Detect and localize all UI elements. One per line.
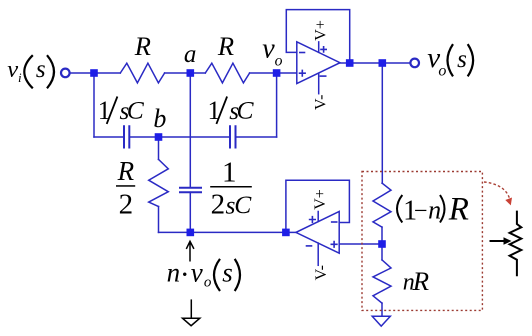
svg-text:s: s: [222, 258, 233, 288]
annotation arrow up to bottom node: [186, 241, 194, 261]
svg-text:s: s: [457, 46, 467, 73]
svg-text:R: R: [412, 266, 429, 296]
red dashed box around divider: [362, 172, 482, 311]
svg-text:V+: V+: [312, 189, 329, 210]
svg-text:s: s: [36, 56, 46, 83]
resistor R (right, horizontal): [205, 63, 249, 83]
op-amp U2 non-inverting input mark: [331, 242, 337, 248]
svg-text:−: −: [414, 198, 428, 225]
svg-text:n: n: [167, 258, 181, 288]
svg-text:C: C: [234, 190, 252, 219]
svg-text:C: C: [127, 96, 145, 125]
wire node a down to capacitor 1/2sC (crosses cap row): [189, 73, 191, 188]
svg-text:2: 2: [211, 189, 226, 221]
op-amp U1 V+ rail mark: [321, 47, 326, 52]
op-amp U2 V+ rail mark: [310, 217, 316, 223]
node square: node b: [155, 133, 163, 141]
svg-text:V-: V-: [313, 265, 330, 280]
svg-text:o: o: [275, 52, 283, 69]
op-amp U1 feedback wire: [286, 10, 349, 63]
node square: U1 output: [346, 59, 354, 67]
op-amp U1 V+ pin: [318, 42, 320, 52]
wire tap node to op-amp U2 + input: [339, 243, 382, 245]
svg-text:R: R: [117, 156, 135, 186]
node square: node a: [187, 69, 195, 77]
op-amp U2 feedback wire: [286, 180, 350, 232]
svg-text:V+: V+: [313, 20, 330, 41]
svg-text:i: i: [18, 70, 22, 85]
wire output junction down to divider: [381, 63, 383, 183]
bottom wire to op-amp U2 output: [159, 231, 286, 233]
red dashed arrow to potentiometer: [484, 182, 510, 200]
node square: output junction: [379, 59, 387, 67]
op-amp U1 inverting input mark: [300, 52, 305, 54]
capacitor 1/2sC plates: [180, 188, 201, 193]
svg-text:C: C: [237, 96, 255, 125]
wire capacitor row left segment: [94, 136, 124, 138]
svg-text:1: 1: [222, 157, 237, 189]
potentiometer body (black): [510, 211, 522, 277]
op-amp U2 triangle: [296, 212, 339, 254]
resistor R/2 (vertical): [149, 159, 169, 206]
op-amp U1 triangle: [297, 42, 340, 84]
svg-text:o: o: [438, 62, 446, 79]
wire tap node to resistor nR: [381, 244, 383, 260]
wire capacitor row up to vo node: [276, 73, 278, 137]
resistor (1-n)R (vertical): [373, 183, 391, 227]
op-amp U1 output wire to terminal: [340, 62, 410, 64]
svg-text:V-: V-: [313, 95, 330, 110]
red arrowhead: [505, 198, 512, 206]
op-amp U2 V- pin: [317, 243, 319, 265]
ground symbol (black, reference for n·vo): [190, 299, 192, 318]
capacitor 1/sC (left) plates: [124, 126, 129, 147]
op-amp U2 V+ pin: [317, 212, 319, 222]
op-amp U1 non-inverting input mark: [300, 70, 306, 76]
svg-text:n: n: [428, 196, 441, 225]
label (1-n)R: [397, 195, 402, 223]
wire capacitor row middle segment: [129, 136, 230, 138]
node square: divider tap: [378, 240, 386, 248]
wire capacitor row right segment: [236, 136, 277, 138]
node square: vo node: [273, 69, 281, 77]
wire (1-n)R to tap node: [381, 227, 383, 244]
wire R/2 down to bottom wire: [158, 207, 160, 233]
capacitor 1/sC (right) plates: [230, 126, 236, 147]
wire R to op-amp U1 + input: [250, 72, 297, 74]
op-amp U1 V- pin: [318, 73, 320, 94]
svg-text:R: R: [448, 191, 469, 227]
wire node b down to resistor R/2: [158, 137, 160, 159]
svg-text:b: b: [153, 104, 166, 133]
svg-text:2: 2: [119, 188, 134, 220]
wire nR to ground: [381, 303, 383, 316]
wire capacitor 1/2sC down to bottom node: [189, 192, 191, 232]
svg-text:v: v: [7, 56, 18, 83]
node square: bottom node: [187, 229, 195, 237]
output terminal circle vo(s): [410, 59, 419, 68]
op-amp U2 V- rail mark: [307, 245, 312, 247]
resistor nR (vertical): [373, 260, 391, 303]
node square: U2 output: [282, 229, 290, 237]
svg-text:R: R: [134, 31, 151, 61]
node square: input junction: [90, 69, 98, 77]
svg-text:v: v: [262, 34, 275, 65]
potentiometer wiper arrow: [490, 240, 505, 242]
wire R to R through node a: [165, 72, 206, 74]
ground symbol (blue, below nR): [372, 316, 390, 326]
svg-text:R: R: [217, 31, 234, 61]
resistor R (left, horizontal): [120, 63, 164, 83]
svg-text:v: v: [191, 258, 203, 288]
wire input to resistor R (left): [71, 72, 121, 74]
op-amp U1 V- rail mark: [320, 75, 325, 77]
op-amp U2 inverting input mark: [332, 221, 337, 223]
wire input node down to capacitor row: [93, 73, 95, 137]
input terminal circle: [61, 69, 70, 78]
svg-text:·: ·: [180, 258, 190, 291]
svg-text:a: a: [184, 41, 197, 68]
wire op-amp U2 output to bottom wire: [286, 231, 296, 233]
svg-text:o: o: [204, 275, 212, 291]
